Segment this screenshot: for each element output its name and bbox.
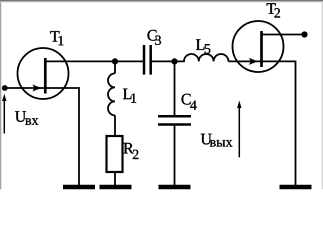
label C3: [148, 30, 162, 45]
label L5: [196, 39, 210, 53]
transistor T2: [233, 21, 284, 72]
resistor R2: [107, 136, 123, 172]
wire C3 to node B: [152, 60, 175, 62]
wire R2 to ground: [114, 172, 116, 186]
wire source T2 to ground: [262, 61, 296, 186]
capacitor C3: [144, 45, 151, 75]
inductor L1: [108, 73, 115, 115]
wire L1 to R2: [114, 115, 116, 136]
node output terminal: [301, 31, 307, 37]
node input terminal: [2, 85, 8, 91]
wire node B to C4: [174, 61, 176, 115]
ground C4: [159, 185, 191, 190]
wire L5 to T2: [228, 60, 261, 62]
node A: [112, 58, 118, 64]
label T1: [50, 31, 63, 45]
label C4: [182, 94, 197, 110]
wire drain T2: [262, 34, 305, 36]
voltage arrow Uвых: [237, 101, 241, 158]
wire source T1 to ground: [45, 88, 79, 186]
label R2: [124, 143, 139, 159]
ground T1: [63, 185, 95, 190]
wire drain T1 to C3: [45, 60, 143, 62]
label Uвх: [15, 111, 38, 125]
wire C4 to ground: [174, 126, 176, 186]
node B: [171, 58, 177, 64]
label T2: [267, 3, 280, 17]
voltage arrow Uвх: [2, 94, 6, 134]
label Uвых: [201, 134, 233, 147]
ground T2: [280, 185, 312, 190]
inductor L5: [175, 54, 229, 61]
wire gate T1: [5, 87, 45, 89]
label L1: [123, 89, 136, 103]
transistor T1: [18, 48, 69, 99]
wire node A to L1: [114, 61, 116, 73]
capacitor C4: [158, 116, 191, 124]
ground R2: [100, 185, 132, 190]
